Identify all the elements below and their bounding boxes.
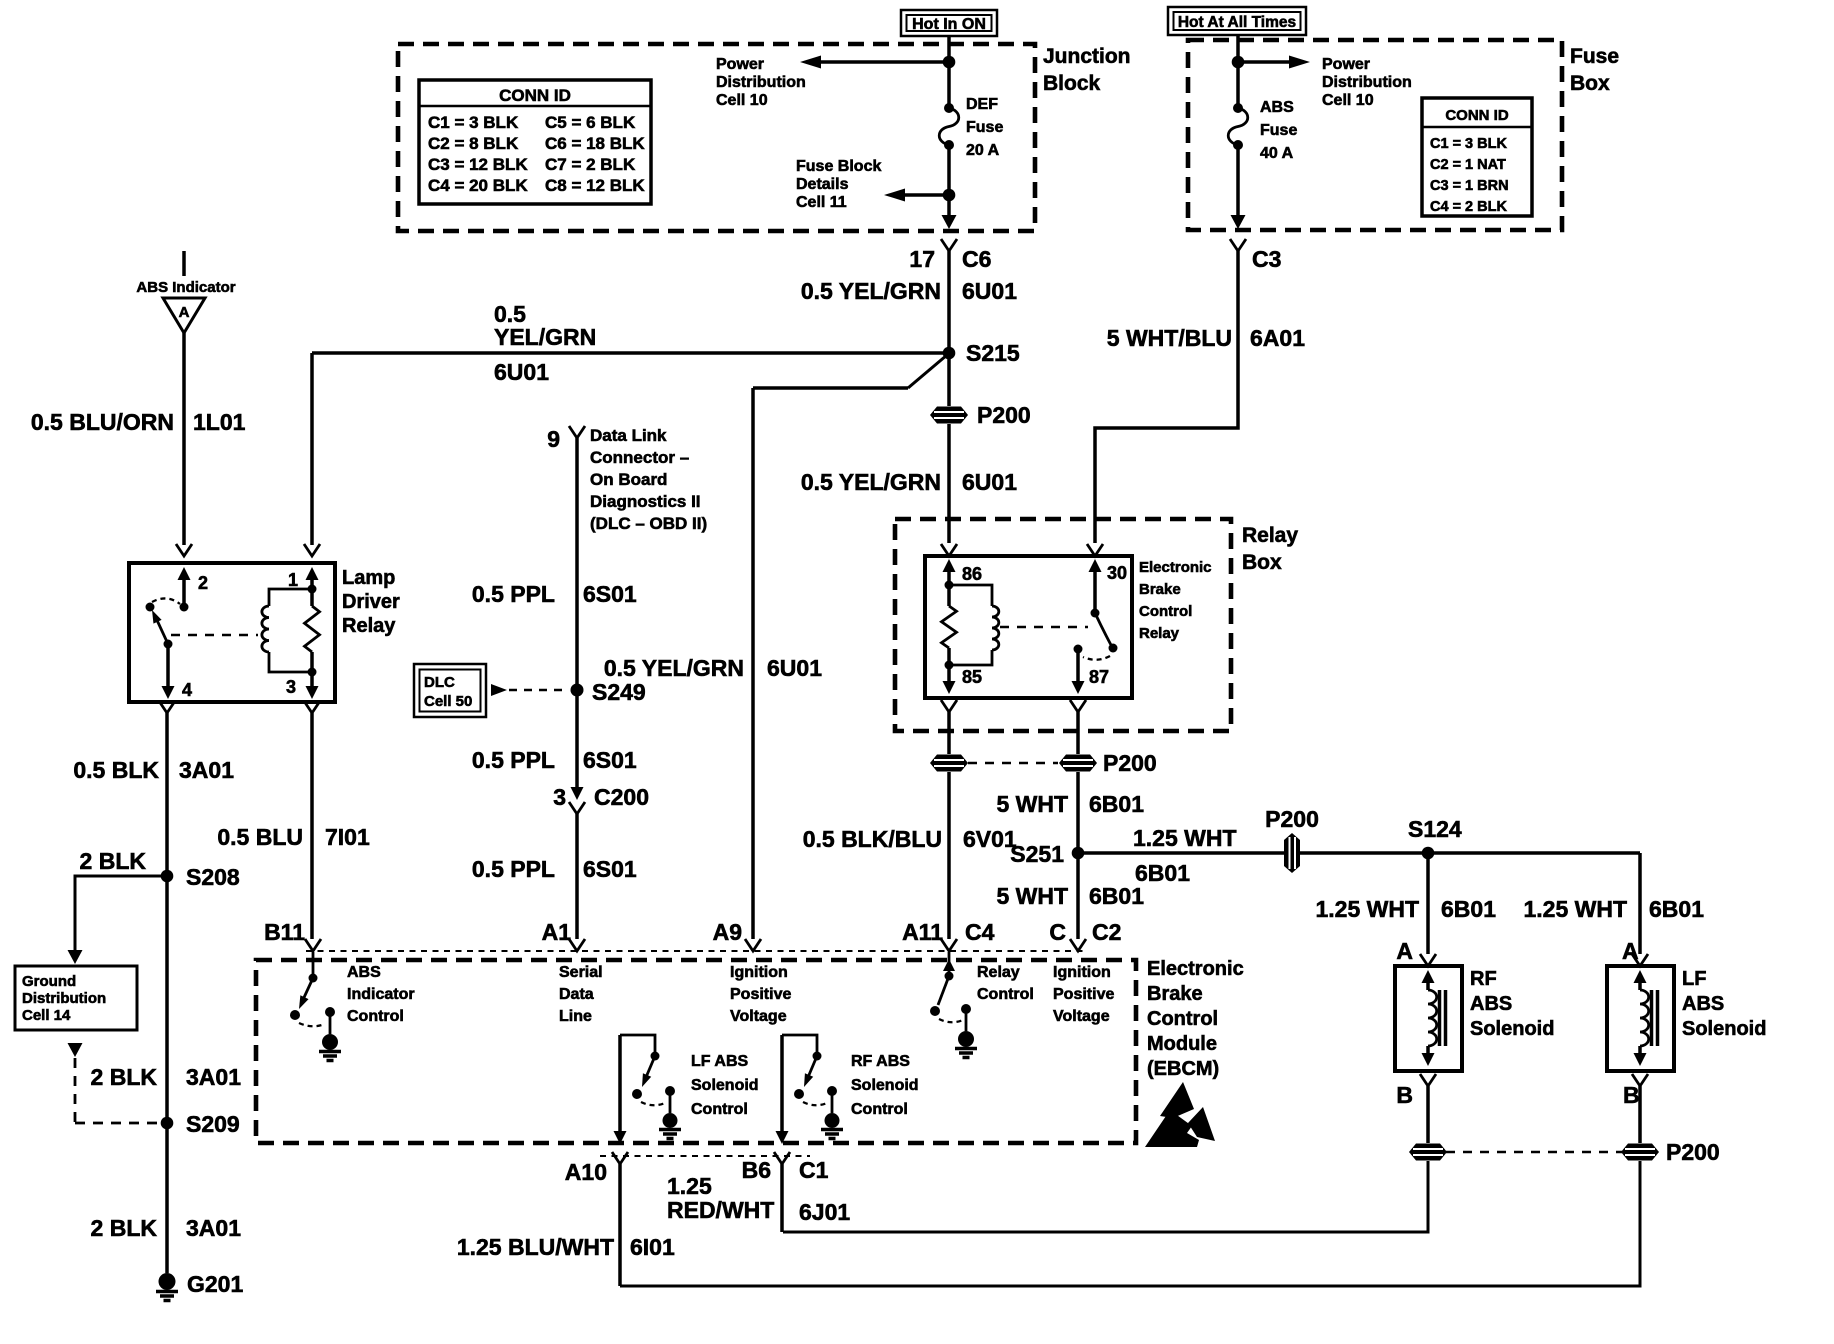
svg-text:A9: A9 [713, 919, 742, 945]
svg-text:5 WHT: 5 WHT [996, 791, 1068, 817]
svg-text:Positive: Positive [1053, 986, 1114, 1003]
svg-text:9: 9 [547, 426, 560, 452]
svg-text:6B01: 6B01 [1135, 860, 1190, 886]
svg-text:5 WHT/BLU: 5 WHT/BLU [1107, 325, 1232, 351]
svg-text:Solenoid: Solenoid [851, 1077, 919, 1094]
svg-text:C3 = 1 BRN: C3 = 1 BRN [1430, 178, 1509, 194]
svg-text:C4: C4 [965, 919, 995, 945]
svg-text:3A01: 3A01 [186, 1215, 241, 1241]
svg-text:Relay: Relay [977, 964, 1020, 981]
svg-text:LF: LF [1682, 968, 1706, 990]
svg-text:6S01: 6S01 [583, 856, 637, 882]
svg-text:P200: P200 [977, 402, 1031, 428]
svg-text:C200: C200 [594, 784, 649, 810]
svg-text:C1 = 3 BLK: C1 = 3 BLK [428, 113, 519, 132]
svg-text:Ignition: Ignition [1053, 964, 1111, 981]
svg-text:C4 = 20 BLK: C4 = 20 BLK [428, 176, 528, 195]
svg-text:Voltage: Voltage [730, 1008, 787, 1025]
svg-text:A1: A1 [542, 919, 572, 945]
svg-text:6B01: 6B01 [1089, 883, 1144, 909]
svg-text:Ignition: Ignition [730, 964, 788, 981]
svg-text:Junction: Junction [1043, 45, 1131, 68]
svg-text:2 BLK: 2 BLK [80, 848, 147, 874]
svg-text:2 BLK: 2 BLK [91, 1215, 158, 1241]
svg-text:G201: G201 [187, 1271, 243, 1297]
svg-text:1.25 WHT: 1.25 WHT [1133, 825, 1237, 851]
svg-text:0.5 BLK: 0.5 BLK [73, 757, 159, 783]
svg-text:Control: Control [1139, 603, 1192, 620]
svg-text:C3: C3 [1252, 246, 1281, 272]
svg-text:Module: Module [1147, 1033, 1217, 1055]
svg-text:Fuse: Fuse [1570, 45, 1619, 68]
svg-text:6J01: 6J01 [799, 1199, 850, 1225]
svg-text:85: 85 [962, 667, 982, 687]
svg-text:6B01: 6B01 [1441, 896, 1496, 922]
svg-text:Ground: Ground [22, 973, 76, 990]
svg-text:Control: Control [977, 986, 1034, 1003]
svg-text:1.25 WHT: 1.25 WHT [1315, 896, 1419, 922]
svg-text:Cell 14: Cell 14 [22, 1007, 71, 1024]
svg-text:Power: Power [1322, 56, 1370, 73]
svg-text:Hot In ON: Hot In ON [912, 16, 986, 33]
svg-text:S249: S249 [592, 679, 646, 705]
svg-text:6A01: 6A01 [1250, 325, 1305, 351]
svg-text:Cell 10: Cell 10 [716, 92, 768, 109]
svg-text:Control: Control [691, 1101, 748, 1118]
svg-text:C2 = 1 NAT: C2 = 1 NAT [1430, 157, 1506, 173]
svg-text:6I01: 6I01 [630, 1234, 675, 1260]
svg-text:RED/WHT: RED/WHT [667, 1197, 774, 1223]
svg-text:20 A: 20 A [966, 142, 1000, 159]
svg-text:ABS Indicator: ABS Indicator [136, 279, 235, 296]
svg-text:Fuse: Fuse [966, 119, 1003, 136]
svg-text:Cell 50: Cell 50 [424, 693, 472, 710]
svg-text:Solenoid: Solenoid [1682, 1018, 1766, 1040]
svg-text:C5 = 6 BLK: C5 = 6 BLK [545, 113, 636, 132]
svg-text:3A01: 3A01 [186, 1064, 241, 1090]
svg-text:C1 = 3 BLK: C1 = 3 BLK [1430, 136, 1507, 152]
svg-text:C6 = 18 BLK: C6 = 18 BLK [545, 134, 645, 153]
svg-text:Block: Block [1043, 72, 1101, 95]
svg-text:Diagnostics II: Diagnostics II [590, 492, 701, 511]
svg-text:Fuse Block: Fuse Block [796, 158, 881, 175]
svg-text:Power: Power [716, 56, 764, 73]
svg-text:6B01: 6B01 [1649, 896, 1704, 922]
svg-text:CONN ID: CONN ID [1445, 107, 1509, 124]
svg-text:1.25 WHT: 1.25 WHT [1523, 896, 1627, 922]
svg-text:A11: A11 [902, 919, 943, 945]
svg-text:6S01: 6S01 [583, 581, 637, 607]
svg-text:S208: S208 [186, 864, 240, 890]
svg-text:Hot At All Times: Hot At All Times [1178, 14, 1296, 31]
svg-text:Relay: Relay [342, 615, 396, 637]
svg-text:0.5 PPL: 0.5 PPL [472, 856, 555, 882]
svg-text:(DLC – OBD II): (DLC – OBD II) [590, 514, 707, 533]
svg-text:2: 2 [198, 573, 208, 593]
svg-text:1L01: 1L01 [193, 409, 246, 435]
svg-text:6U01: 6U01 [767, 655, 822, 681]
svg-text:Distribution: Distribution [1322, 74, 1412, 91]
svg-text:86: 86 [962, 564, 982, 584]
svg-text:Control: Control [851, 1101, 908, 1118]
svg-text:1.25 BLU/WHT: 1.25 BLU/WHT [457, 1234, 614, 1260]
svg-text:2 BLK: 2 BLK [91, 1064, 158, 1090]
svg-text:A: A [179, 304, 190, 321]
svg-text:Electronic: Electronic [1147, 958, 1244, 980]
svg-text:Solenoid: Solenoid [1470, 1018, 1554, 1040]
svg-text:3: 3 [286, 677, 296, 697]
svg-text:ABS: ABS [1470, 993, 1512, 1015]
svg-text:ABS: ABS [347, 964, 381, 981]
svg-text:Control: Control [347, 1008, 404, 1025]
svg-text:0.5 PPL: 0.5 PPL [472, 581, 555, 607]
svg-text:7I01: 7I01 [325, 824, 370, 850]
svg-text:17: 17 [909, 246, 935, 272]
svg-text:0.5 BLU: 0.5 BLU [217, 824, 303, 850]
svg-text:B6: B6 [742, 1157, 771, 1183]
svg-text:Driver: Driver [342, 591, 400, 613]
svg-text:Solenoid: Solenoid [691, 1077, 759, 1094]
svg-text:0.5 YEL/GRN: 0.5 YEL/GRN [801, 469, 941, 495]
svg-text:S251: S251 [1010, 841, 1064, 867]
svg-text:Cell 10: Cell 10 [1322, 92, 1374, 109]
svg-text:On Board: On Board [590, 470, 667, 489]
svg-text:A10: A10 [565, 1159, 607, 1185]
svg-text:Data: Data [559, 986, 594, 1003]
svg-text:S209: S209 [186, 1111, 240, 1137]
svg-text:DEF: DEF [966, 96, 998, 113]
svg-text:Distribution: Distribution [22, 990, 106, 1007]
svg-text:Relay: Relay [1242, 524, 1298, 547]
svg-text:C2 = 8 BLK: C2 = 8 BLK [428, 134, 519, 153]
svg-text:6S01: 6S01 [583, 747, 637, 773]
svg-text:0.5 BLU/ORN: 0.5 BLU/ORN [31, 409, 174, 435]
svg-text:40 A: 40 A [1260, 145, 1294, 162]
svg-text:Voltage: Voltage [1053, 1008, 1110, 1025]
svg-text:Lamp: Lamp [342, 567, 395, 589]
svg-text:6B01: 6B01 [1089, 791, 1144, 817]
svg-text:30: 30 [1107, 563, 1127, 583]
svg-text:P200: P200 [1103, 750, 1157, 776]
svg-text:Connector –: Connector – [590, 448, 689, 467]
svg-text:Fuse: Fuse [1260, 122, 1297, 139]
svg-text:DLC: DLC [424, 674, 455, 691]
svg-text:RF ABS: RF ABS [851, 1053, 910, 1070]
svg-text:S124: S124 [1408, 816, 1462, 842]
svg-text:P200: P200 [1265, 806, 1319, 832]
svg-text:Serial: Serial [559, 964, 603, 981]
svg-text:87: 87 [1089, 667, 1109, 687]
svg-text:1: 1 [288, 570, 298, 590]
svg-text:3: 3 [553, 784, 566, 810]
svg-text:B11: B11 [264, 919, 305, 945]
svg-text:Electronic: Electronic [1139, 559, 1212, 576]
svg-text:Relay: Relay [1139, 625, 1180, 642]
svg-text:1.25: 1.25 [667, 1173, 712, 1199]
svg-text:C3 = 12 BLK: C3 = 12 BLK [428, 155, 528, 174]
svg-text:6V01: 6V01 [963, 826, 1017, 852]
svg-text:C7 = 2 BLK: C7 = 2 BLK [545, 155, 636, 174]
svg-text:B: B [1396, 1082, 1413, 1108]
svg-text:Indicator: Indicator [347, 986, 415, 1003]
svg-text:(EBCM): (EBCM) [1147, 1058, 1219, 1080]
svg-text:Brake: Brake [1147, 983, 1203, 1005]
svg-text:0.5 YEL/GRN: 0.5 YEL/GRN [801, 278, 941, 304]
svg-text:Box: Box [1570, 72, 1610, 95]
svg-text:A: A [1622, 938, 1639, 964]
svg-text:6U01: 6U01 [962, 469, 1017, 495]
svg-text:0.5 YEL/GRN: 0.5 YEL/GRN [604, 655, 744, 681]
svg-text:C4 = 2 BLK: C4 = 2 BLK [1430, 199, 1507, 215]
svg-text:C6: C6 [962, 246, 991, 272]
svg-text:5 WHT: 5 WHT [996, 883, 1068, 909]
svg-text:6U01: 6U01 [962, 278, 1017, 304]
svg-text:Line: Line [559, 1008, 592, 1025]
svg-text:P200: P200 [1666, 1139, 1720, 1165]
svg-text:0.5 BLK/BLU: 0.5 BLK/BLU [803, 826, 942, 852]
svg-text:ABS: ABS [1682, 993, 1724, 1015]
svg-text:Brake: Brake [1139, 581, 1181, 598]
svg-text:LF ABS: LF ABS [691, 1053, 749, 1070]
svg-text:A: A [1396, 938, 1413, 964]
svg-text:Details: Details [796, 176, 849, 193]
svg-text:4: 4 [182, 680, 192, 700]
svg-text:Data Link: Data Link [590, 426, 667, 445]
svg-text:ABS: ABS [1260, 99, 1294, 116]
svg-text:RF: RF [1470, 968, 1497, 990]
svg-text:C2: C2 [1092, 919, 1121, 945]
svg-text:0.5 PPL: 0.5 PPL [472, 747, 555, 773]
svg-text:C: C [1049, 919, 1066, 945]
svg-text:Distribution: Distribution [716, 74, 806, 91]
svg-text:S215: S215 [966, 340, 1020, 366]
svg-text:Positive: Positive [730, 986, 791, 1003]
svg-text:C1: C1 [799, 1157, 829, 1183]
svg-text:CONN ID: CONN ID [499, 86, 571, 105]
svg-text:B: B [1623, 1082, 1640, 1108]
svg-text:6U01: 6U01 [494, 359, 549, 385]
svg-text:Cell 11: Cell 11 [796, 194, 847, 211]
svg-text:Box: Box [1242, 551, 1282, 574]
svg-text:3A01: 3A01 [179, 757, 234, 783]
svg-text:C8 = 12 BLK: C8 = 12 BLK [545, 176, 645, 195]
svg-text:Control: Control [1147, 1008, 1218, 1030]
svg-text:YEL/GRN: YEL/GRN [494, 324, 596, 350]
